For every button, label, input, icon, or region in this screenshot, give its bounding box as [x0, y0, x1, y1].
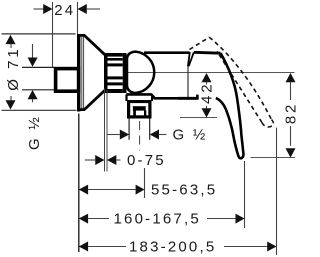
outlet flange	[125, 95, 153, 102]
union nut	[56, 69, 79, 92]
dimension G1/2 inlet	[26, 44, 43, 150]
svg-text:24: 24	[54, 2, 75, 19]
outlet centerline	[139, 121, 141, 151]
svg-text:G ½: G ½	[26, 115, 43, 150]
body bottom edge	[126, 94, 197, 98]
svg-text:Ø 71: Ø 71	[5, 46, 22, 91]
node left main extension line	[78, 114, 80, 253]
dimension 55-63,5	[79, 181, 217, 198]
svg-text:160-167,5: 160-167,5	[114, 210, 201, 227]
svg-text:42: 42	[199, 82, 216, 104]
dimension 0-75	[85, 152, 166, 169]
svg-text:183-200,5: 183-200,5	[129, 238, 216, 255]
node top ref line	[2, 33, 76, 35]
outlet stub	[129, 119, 150, 140]
inlet pipe	[22, 67, 54, 89]
handle lever dashed	[190, 37, 274, 127]
dimension 160-167,5	[79, 210, 245, 227]
node 42 bottom ref	[180, 117, 217, 119]
cartridge dome	[127, 52, 154, 93]
node outlet max extension line	[144, 168, 146, 198]
wire	[124, 72, 295, 74]
svg-text:55-63,5: 55-63,5	[151, 181, 217, 198]
dimension 82	[283, 73, 300, 158]
outlet nut	[127, 100, 152, 119]
svg-text:82: 82	[283, 102, 300, 124]
node dashed tip extension line	[276, 128, 278, 255]
dimension 24	[34, 2, 101, 68]
node wall lines	[105, 89, 108, 172]
dimension G1/2 outlet	[107, 127, 207, 144]
node handle tip extension line	[244, 161, 246, 228]
svg-text:0-75: 0-75	[127, 152, 166, 169]
node bottom ref line	[2, 109, 77, 111]
body joint wedge	[188, 52, 194, 98]
dimension 42	[199, 73, 216, 118]
dimension D71	[5, 35, 22, 110]
node 82 bottom ref	[251, 157, 296, 159]
escutcheon	[77, 34, 106, 112]
svg-text:G ½: G ½	[173, 127, 208, 144]
body top edge	[144, 51, 190, 54]
handle lever solid	[194, 52, 244, 158]
collar ring	[104, 53, 127, 93]
dimension 183-200,5	[79, 238, 277, 255]
